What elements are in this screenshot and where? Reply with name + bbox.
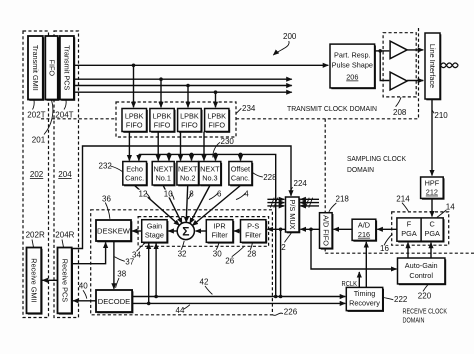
wire: drop to LPBK FIFO 4: [215, 92, 217, 107]
Receive GMII vertical text: [30, 258, 39, 302]
leader 40: [83, 290, 87, 298]
svg-text:A/D FIFO: A/D FIFO: [321, 215, 330, 246]
svg-text:36: 36: [102, 194, 111, 203]
svg-text:38: 38: [117, 270, 126, 279]
wire: line A decode data to P/S MUX and Receive PCS: [72, 146, 291, 249]
svg-text:212: 212: [426, 188, 438, 197]
LPBK FIFO 1: [122, 109, 147, 132]
leader 12: [146, 193, 151, 200]
wire: parallel bus into P/S MUX right 1: [300, 198, 319, 200]
leader 224: [290, 187, 292, 190]
wire: parallel bus into P/S MUX left 2: [267, 202, 284, 204]
wire: line 44 DECODE to Timing Recovery: [132, 302, 345, 304]
label background 12: [138, 190, 148, 198]
Receive PCS vertical text: [60, 259, 69, 303]
wire: line B tap to Offset Canc: [240, 154, 242, 160]
wire: transmit bus line 3: [74, 85, 292, 87]
svg-text:F: F: [407, 220, 412, 229]
transmit clock domain dashed boundary (horizontal): [41, 118, 116, 120]
svg-text:40: 40: [79, 282, 88, 291]
svg-text:Filter: Filter: [211, 230, 228, 239]
wire: parallel bus into P/S MUX left 1: [267, 198, 284, 200]
A/D FIFO vertical text: [321, 215, 330, 246]
leader 34: [137, 243, 145, 251]
svg-text:32: 32: [178, 249, 187, 258]
leader 44: [184, 305, 190, 310]
svg-text:218: 218: [336, 195, 350, 204]
svg-text:210: 210: [434, 111, 448, 120]
svg-text:NEXT: NEXT: [178, 165, 198, 174]
leader 6: [209, 193, 218, 200]
wire: LPBK FIFO 3 to NEXT No.2: [180, 132, 182, 161]
svg-text:LPBK: LPBK: [180, 112, 199, 121]
wire: NEXT No.1 to summer: [163, 186, 182, 224]
svg-text:26: 26: [225, 256, 234, 265]
Timing Recovery 222: [346, 287, 382, 310]
NEXT No.2: [177, 162, 199, 186]
P-S Filter 28: [241, 220, 266, 243]
sampling clock domain dashed boundary vertical: [324, 119, 326, 213]
leader 10: [171, 193, 174, 200]
wire: LPBK FIFO 4 to NEXT No.3: [203, 132, 205, 161]
Receive PCS 204R: [58, 248, 72, 314]
svg-text:Line Interface: Line Interface: [428, 44, 437, 88]
svg-text:DESKEW: DESKEW: [97, 226, 131, 235]
svg-text:LPBK: LPBK: [125, 112, 144, 121]
svg-text:LPBK: LPBK: [207, 112, 226, 121]
svg-text:Pulse Shape: Pulse Shape: [332, 61, 373, 70]
dashed box 234 around LPBK FIFOs: [116, 102, 236, 137]
wire: feedback to Gain Stage from 44: [148, 244, 150, 304]
wire: line B tap to NEXT No.2: [191, 154, 193, 160]
leader 37: [115, 257, 125, 262]
svg-text:2: 2: [281, 243, 286, 252]
leader 2: [285, 233, 292, 242]
leader 16: [384, 234, 392, 245]
svg-text:TRANSMIT CLOCK DOMAIN: TRANSMIT CLOCK DOMAIN: [287, 104, 377, 113]
FIFO vertical text: [47, 59, 56, 76]
leader 208: [396, 97, 401, 106]
svg-text:Transmit GMII: Transmit GMII: [31, 45, 40, 91]
svg-text:FIFO: FIFO: [181, 121, 198, 130]
svg-text:P/S MUX: P/S MUX: [288, 199, 297, 229]
svg-text:204R: 204R: [55, 230, 74, 239]
dashed box 208 around line drivers: [383, 33, 416, 97]
svg-text:222: 222: [394, 295, 408, 304]
svg-text:Stage: Stage: [145, 230, 164, 239]
A/D 216: [352, 219, 376, 240]
leader 230: [213, 142, 220, 157]
wire: transmit bus line 4: [74, 91, 292, 93]
wire: IPR Filter to summer: [196, 230, 207, 232]
leader 226: [273, 313, 283, 315]
svg-text:No.2: No.2: [180, 174, 195, 183]
wire: Gain Stage to DESKEW: [132, 230, 142, 232]
leader 26: [232, 247, 244, 257]
HPF 212: [421, 177, 444, 198]
leader 202R: [32, 240, 34, 248]
dashed box 26 around Gain/Sigma/IPR/P-S: [138, 217, 269, 247]
svg-text:Gain: Gain: [147, 221, 162, 230]
svg-text:Canc.: Canc.: [231, 174, 250, 183]
F PGA / C PGA 14: [397, 218, 443, 241]
leader 218: [329, 203, 336, 212]
wire: drop to LPBK FIFO 3: [187, 86, 189, 108]
svg-text:204T: 204T: [55, 110, 73, 119]
dashed box 214 around PGA: [392, 212, 449, 245]
svg-text:228: 228: [263, 173, 277, 182]
twisted pair symbol at line interface: [441, 63, 459, 68]
svg-text:202R: 202R: [26, 230, 45, 239]
wire: NEXT No.3 to summer: [190, 186, 210, 224]
wire: line 40 DECODE to Receive PCS: [73, 300, 96, 302]
Gain Stage 34: [142, 220, 167, 243]
svg-text:Part. Resp.: Part. Resp.: [334, 51, 371, 60]
wire: branch down to Auto-Gain Control: [311, 229, 397, 269]
svg-text:220: 220: [418, 291, 432, 300]
leader 210: [432, 110, 434, 113]
wire: Receive PCS to DESKEW: [72, 242, 106, 263]
leader 204T: [64, 100, 66, 110]
svg-text:Control: Control: [409, 271, 433, 280]
svg-text:200: 200: [283, 32, 297, 41]
svg-text:Transmit PCS: Transmit PCS: [63, 45, 72, 90]
leader 222: [383, 297, 393, 299]
svg-text:28: 28: [247, 249, 256, 258]
leader 4: [236, 193, 246, 200]
leader 228: [252, 173, 262, 178]
svg-text:Auto-Gain: Auto-Gain: [405, 261, 438, 270]
svg-text:IPR: IPR: [214, 221, 226, 230]
wire: Auto-Gain to F PGA: [407, 243, 409, 258]
svg-text:P-S: P-S: [247, 221, 259, 230]
Line Interface vertical text: [428, 44, 437, 88]
wire: HPF to C PGA: [431, 198, 433, 216]
wire: RCLK output arrow: [358, 272, 360, 287]
leader 42: [205, 286, 212, 294]
bus hatch marks left of P/S MUX: [270, 198, 274, 208]
wire: parallel bus into P/S MUX left 3: [267, 205, 284, 207]
wire: drop to LPBK FIFO 2: [160, 79, 162, 107]
DECODE 38: [96, 290, 132, 312]
svg-text:Receive GMII: Receive GMII: [30, 258, 39, 302]
leader 204R: [62, 240, 64, 248]
wire: riser from 42 to A/D FIFO output line: [280, 229, 282, 296]
wire: summer to Gain Stage: [168, 230, 177, 232]
svg-text:C: C: [430, 220, 435, 229]
wire: distribution line B from 42 up to cancellers: [139, 154, 276, 296]
leader 234: [236, 108, 241, 113]
svg-text:226: 226: [284, 307, 298, 316]
LPBK FIFO 4: [205, 109, 229, 132]
wire: LPBK FIFO 2 to NEXT No.1: [157, 132, 159, 161]
svg-text:HPF: HPF: [425, 178, 440, 187]
A/D FIFO 218: [320, 213, 333, 249]
Transmit FIFO 201: [45, 36, 58, 100]
summer sigma 32: [177, 222, 194, 239]
svg-text:DOMAIN: DOMAIN: [347, 165, 374, 174]
Echo Canc 232: [123, 162, 147, 186]
leader 32: [181, 241, 184, 250]
svg-text:8: 8: [189, 190, 194, 199]
svg-text:LPBK: LPBK: [153, 112, 172, 121]
svg-text:DOMAIN: DOMAIN: [403, 315, 425, 324]
svg-text:FIFO: FIFO: [154, 121, 171, 130]
svg-text:SAMPLING CLOCK: SAMPLING CLOCK: [347, 154, 406, 163]
svg-text:Offset: Offset: [231, 165, 250, 174]
transmit clock domain dashed boundary (vertical right): [418, 28, 420, 119]
wire: transmit bus line 2: [74, 78, 292, 80]
svg-text:Filter: Filter: [245, 230, 262, 239]
svg-text:37: 37: [125, 258, 134, 267]
dashed column 204 (Transmit/Receive PCS): [54, 31, 79, 318]
svg-text:30: 30: [213, 249, 222, 258]
NEXT No.3: [199, 162, 221, 186]
wire: DESKEW to DECODE (37): [113, 241, 115, 289]
sampling/receive clock domain dashed boundary horizontal: [325, 252, 474, 254]
DESKEW 36: [96, 220, 131, 241]
wire: Echo Canc to summer: [135, 186, 180, 226]
svg-text:202T: 202T: [27, 110, 45, 119]
svg-text:No.3: No.3: [202, 174, 217, 183]
wire: parallel bus into P/S MUX right 2: [300, 202, 319, 204]
svg-text:Receive PCS: Receive PCS: [60, 259, 69, 303]
Receive GMII 202R: [27, 248, 42, 314]
Line Interface 210: [425, 33, 440, 99]
dashed column 202 (Transmit/Receive GMII): [23, 31, 49, 318]
Transmit PCS vertical text: [63, 45, 72, 90]
wire: Receive PCS to Receive GMII: [42, 279, 57, 281]
wire: transmit bus line 1 PCS to Part.Resp.: [74, 64, 328, 66]
wire: line interface down to HPF: [431, 99, 433, 176]
svg-text:208: 208: [393, 108, 407, 117]
leader 214: [402, 203, 408, 212]
svg-text:232: 232: [99, 162, 113, 171]
wire: line 42 DECODE to Timing Recovery: [132, 296, 345, 298]
wire: line B tap to NEXT No.1: [168, 154, 170, 160]
svg-text:RECEIVE CLOCK: RECEIVE CLOCK: [403, 307, 448, 316]
wire: parallel bus into P/S MUX right 3: [300, 205, 319, 207]
leader 14: [437, 210, 446, 217]
svg-text:224: 224: [294, 179, 308, 188]
bus hatch marks right of P/S MUX: [305, 198, 309, 208]
leader 202T: [33, 100, 35, 110]
svg-text:204: 204: [58, 170, 72, 179]
svg-text:DECODE: DECODE: [98, 297, 131, 306]
wire: Auto-Gain to C PGA: [430, 243, 432, 258]
leader 28: [250, 243, 252, 250]
svg-text:234: 234: [242, 104, 256, 113]
Transmit PCS 204T: [60, 36, 74, 100]
svg-text:12: 12: [139, 190, 148, 199]
svg-text:NEXT: NEXT: [200, 165, 220, 174]
junction dots: [132, 64, 136, 68]
svg-text:NEXT: NEXT: [153, 165, 173, 174]
LPBK FIFO 2: [150, 109, 174, 132]
svg-text:PGA: PGA: [401, 229, 417, 238]
svg-text:PGA: PGA: [424, 229, 440, 238]
leader 8: [188, 193, 192, 199]
Offset Canc 228: [229, 162, 252, 186]
leader 232: [111, 166, 123, 172]
wire: line B tap to NEXT No.3: [215, 154, 217, 160]
svg-text:FIFO: FIFO: [47, 59, 56, 76]
svg-text:201: 201: [32, 135, 46, 144]
LPBK FIFO 3: [178, 109, 202, 132]
svg-text:Canc.: Canc.: [125, 174, 144, 183]
wire: driver 1 to line interface: [407, 49, 423, 51]
wire: P-S Filter to IPR Filter: [234, 230, 240, 232]
leader for 200: [273, 41, 289, 55]
svg-text:Echo: Echo: [126, 165, 143, 174]
wire: drop to LPBK FIFO 1: [133, 65, 135, 107]
NEXT No.1: [152, 162, 174, 186]
wire: LPBK FIFO 1 to Echo Canc: [128, 132, 130, 161]
wire: continues to P-S Filter: [267, 228, 299, 230]
svg-text:No.1: No.1: [155, 174, 170, 183]
svg-text:FIFO: FIFO: [126, 121, 143, 130]
wire: F PGA to A/D: [377, 228, 397, 230]
wire: A/D to A/D FIFO: [334, 228, 353, 230]
svg-text:Recovery: Recovery: [349, 298, 380, 307]
svg-text:216: 216: [358, 230, 370, 239]
svg-text:A/D: A/D: [358, 221, 370, 230]
P/S MUX 224: [286, 197, 300, 232]
IPR Filter 30: [206, 220, 233, 243]
svg-text:FIFO: FIFO: [208, 121, 225, 130]
svg-text:14: 14: [446, 202, 455, 211]
svg-text:RCLK: RCLK: [342, 279, 358, 288]
P/S MUX vertical text: [288, 199, 297, 229]
box shadows: [28, 34, 446, 314]
Part. Resp. Pulse Shape 206: [330, 44, 375, 88]
wire: A/D FIFO out to P/S MUX: [301, 228, 320, 230]
svg-text:44: 44: [176, 306, 185, 315]
wire: Part.Resp to driver 1: [375, 50, 390, 52]
wire: driver 2 to line interface: [407, 80, 423, 82]
wire: feedback to Gain Stage from 42: [155, 244, 157, 297]
svg-text:42: 42: [200, 277, 209, 286]
leader 38: [116, 278, 119, 288]
svg-text:16: 16: [380, 244, 389, 253]
wire: branch to driver 2: [380, 51, 389, 81]
svg-text:230: 230: [221, 137, 235, 146]
leader 30: [216, 243, 219, 250]
label background 10: [163, 190, 173, 198]
Auto-Gain Control 220: [398, 258, 445, 284]
Transmit GMII vertical text: [31, 45, 40, 91]
driver triangle 2: [390, 72, 407, 90]
leader 36: [105, 203, 110, 219]
svg-text:Σ: Σ: [182, 224, 189, 238]
svg-text:206: 206: [346, 73, 358, 82]
wire: Offset Canc to summer: [192, 186, 240, 226]
svg-text:Timing: Timing: [354, 289, 376, 298]
leader 220: [423, 285, 428, 292]
dashed box 226 around receive equalizer section: [91, 210, 273, 315]
leader 201: [44, 100, 53, 135]
svg-text:214: 214: [396, 194, 410, 203]
wire: line B drop to Echo Canc: [138, 154, 140, 160]
wire: Timing Recovery clock to A/D: [365, 242, 367, 287]
Transmit GMII 202T: [28, 36, 43, 100]
driver triangle 1: [390, 41, 407, 59]
wire: NEXT No.2 to summer: [186, 186, 188, 223]
svg-text:202: 202: [30, 170, 44, 179]
